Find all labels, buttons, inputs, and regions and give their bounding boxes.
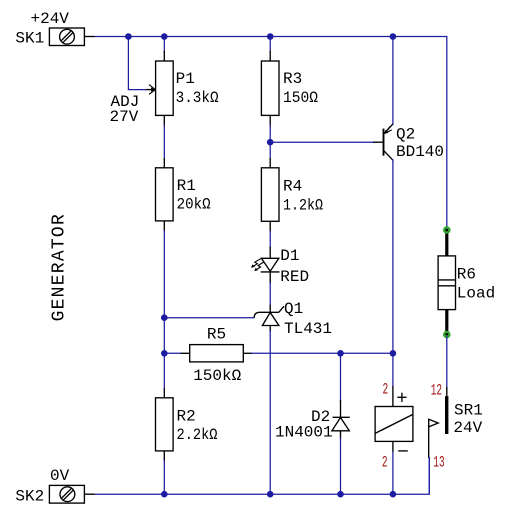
svg-text:BD140: BD140 bbox=[396, 143, 444, 161]
wire base node to Q2 bbox=[270, 141, 374, 143]
svg-text:R6: R6 bbox=[457, 266, 476, 284]
svg-text:2: 2 bbox=[382, 453, 388, 471]
transistor Q2 BD140 bbox=[373, 37, 444, 354]
svg-text:Q1: Q1 bbox=[284, 300, 303, 318]
node top rail / ADJ junction bbox=[125, 33, 132, 40]
svg-text:R4: R4 bbox=[283, 178, 302, 196]
svg-text:SR1: SR1 bbox=[454, 401, 483, 419]
terminal SK2 bbox=[15, 467, 94, 505]
svg-text:150Ω: 150Ω bbox=[283, 89, 318, 107]
node R3/R4/Q2 base junction bbox=[267, 139, 274, 146]
resistor R4 bbox=[261, 158, 323, 231]
resistor R3 bbox=[261, 37, 318, 126]
svg-text:0V: 0V bbox=[50, 467, 70, 485]
wire Q1 reference bbox=[164, 317, 254, 319]
svg-text:1.2kΩ: 1.2kΩ bbox=[283, 196, 323, 214]
wire R5 to relay node bbox=[251, 352, 393, 354]
node left column / R5 junction bbox=[161, 350, 168, 357]
svg-text:SK1: SK1 bbox=[15, 29, 44, 47]
node bottom rail / Q1 anode junction bbox=[267, 491, 274, 498]
node bottom rail / D2 junction bbox=[337, 491, 344, 498]
shunt regulator Q1 TL431 bbox=[254, 300, 332, 338]
svg-text:Load: Load bbox=[457, 284, 495, 302]
wire P1 to R1 bbox=[163, 125, 165, 160]
svg-text:TL431: TL431 bbox=[284, 320, 332, 338]
wire +24V top rail bbox=[94, 37, 447, 228]
svg-text:12: 12 bbox=[431, 381, 442, 399]
svg-text:GENERATOR: GENERATOR bbox=[50, 213, 70, 321]
svg-text:P1: P1 bbox=[176, 70, 195, 88]
svg-text:+24V: +24V bbox=[31, 10, 70, 28]
node R6 pin top bbox=[444, 227, 449, 232]
node R5 wire / D2 junction bbox=[337, 350, 344, 357]
diode D2 1N4001 bbox=[275, 353, 350, 494]
svg-text:2.2kΩ: 2.2kΩ bbox=[177, 426, 218, 444]
wire R3 to base node bbox=[269, 125, 271, 160]
terminal SK1 bbox=[15, 10, 94, 48]
node left column / Q1 ref junction bbox=[161, 314, 168, 321]
svg-text:150kΩ: 150kΩ bbox=[193, 367, 241, 385]
svg-text:SK2: SK2 bbox=[15, 487, 44, 505]
potentiometer P1 bbox=[110, 37, 219, 127]
relay coil SR1 (pins 2 / 2) bbox=[375, 353, 413, 494]
wire R6 to SR1 contact bbox=[446, 337, 448, 389]
resistor R2 bbox=[156, 388, 218, 461]
node top rail / Q2 emitter junction bbox=[390, 33, 397, 40]
svg-text:Q2: Q2 bbox=[396, 126, 415, 144]
wire ADJ from rail to wiper bbox=[128, 37, 146, 90]
svg-text:R5: R5 bbox=[207, 325, 226, 343]
load R6 bbox=[438, 226, 495, 337]
svg-text:R1: R1 bbox=[177, 177, 196, 195]
wire 0V bottom rail bbox=[94, 458, 430, 495]
svg-text:3.3kΩ: 3.3kΩ bbox=[176, 89, 219, 107]
wire R4 to D1 bbox=[269, 230, 271, 248]
node R6 pin bottom bbox=[444, 332, 449, 337]
node bottom rail / relay coil junction bbox=[390, 491, 397, 498]
svg-text:2: 2 bbox=[383, 380, 389, 398]
wire R1 down left column to R2 bbox=[163, 230, 165, 389]
node R5 wire / Q2 collector junction bbox=[390, 350, 397, 357]
svg-text:27V: 27V bbox=[110, 108, 139, 126]
LED D1 bbox=[251, 247, 309, 286]
node top rail / R3 junction bbox=[267, 33, 274, 40]
svg-text:1N4001: 1N4001 bbox=[275, 424, 333, 442]
svg-text:13: 13 bbox=[433, 453, 444, 471]
wire D1 to Q1 bbox=[269, 283, 271, 306]
wire Q1 anode to bottom rail bbox=[269, 331, 271, 494]
svg-text:D1: D1 bbox=[280, 247, 299, 265]
resistor R5 bbox=[164, 325, 252, 385]
relay contact SR1 24V (pins 12 / 13) bbox=[429, 381, 483, 494]
node top rail / P1 junction bbox=[161, 33, 168, 40]
node bottom rail / R2 junction bbox=[161, 491, 168, 498]
svg-text:20kΩ: 20kΩ bbox=[177, 196, 211, 214]
svg-text:R3: R3 bbox=[283, 70, 302, 88]
svg-text:RED: RED bbox=[280, 268, 309, 286]
svg-text:24V: 24V bbox=[453, 419, 482, 437]
svg-text:R2: R2 bbox=[177, 407, 196, 425]
resistor R1 bbox=[156, 158, 211, 231]
wire R2 to bottom rail bbox=[163, 460, 165, 494]
